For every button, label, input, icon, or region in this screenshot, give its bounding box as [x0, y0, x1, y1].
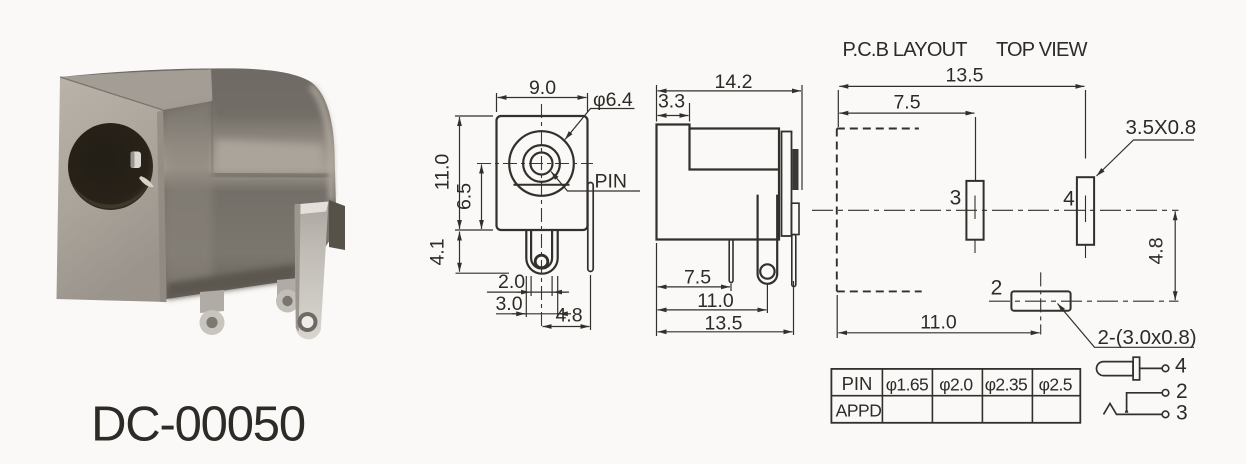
svg-text:DC-00050: DC-00050: [91, 398, 305, 452]
svg-text:4: 4: [1063, 188, 1075, 211]
svg-text:7.5: 7.5: [684, 267, 711, 289]
svg-text:TOP VIEW: TOP VIEW: [996, 39, 1088, 61]
svg-text:7.5: 7.5: [893, 92, 920, 114]
svg-text:3: 3: [1176, 402, 1188, 425]
svg-text:4.1: 4.1: [427, 238, 449, 265]
svg-text:11.0: 11.0: [432, 154, 454, 191]
svg-text:2: 2: [1176, 380, 1188, 403]
svg-text:3.5X0.8: 3.5X0.8: [1126, 116, 1197, 139]
svg-text:2.0: 2.0: [498, 271, 525, 293]
svg-text:11.0: 11.0: [920, 312, 957, 334]
svg-text:2-(3.0x0.8): 2-(3.0x0.8): [1098, 326, 1197, 349]
svg-text:4.8: 4.8: [555, 305, 582, 327]
svg-text:APPD: APPD: [836, 400, 882, 420]
svg-text:4: 4: [1175, 355, 1187, 378]
svg-text:φ6.4: φ6.4: [593, 89, 633, 111]
svg-text:φ2.0: φ2.0: [939, 374, 973, 394]
svg-text:φ1.65: φ1.65: [886, 374, 928, 394]
svg-text:φ2.35: φ2.35: [985, 374, 1027, 394]
svg-text:3.0: 3.0: [495, 293, 522, 315]
svg-text:2: 2: [991, 277, 1003, 300]
svg-text:PIN: PIN: [842, 373, 873, 394]
svg-text:14.2: 14.2: [715, 71, 753, 93]
svg-text:13.5: 13.5: [705, 313, 743, 335]
svg-text:φ2.5: φ2.5: [1039, 374, 1072, 394]
svg-text:11.0: 11.0: [697, 290, 734, 312]
svg-text:4.8: 4.8: [1146, 237, 1168, 264]
svg-text:3.3: 3.3: [658, 91, 685, 113]
svg-text:3: 3: [950, 187, 962, 210]
svg-text:9.0: 9.0: [529, 77, 556, 99]
svg-text:P.C.B LAYOUT: P.C.B LAYOUT: [843, 39, 968, 61]
svg-text:6.5: 6.5: [454, 183, 476, 210]
svg-text:PIN: PIN: [595, 171, 628, 193]
svg-text:13.5: 13.5: [946, 65, 984, 87]
